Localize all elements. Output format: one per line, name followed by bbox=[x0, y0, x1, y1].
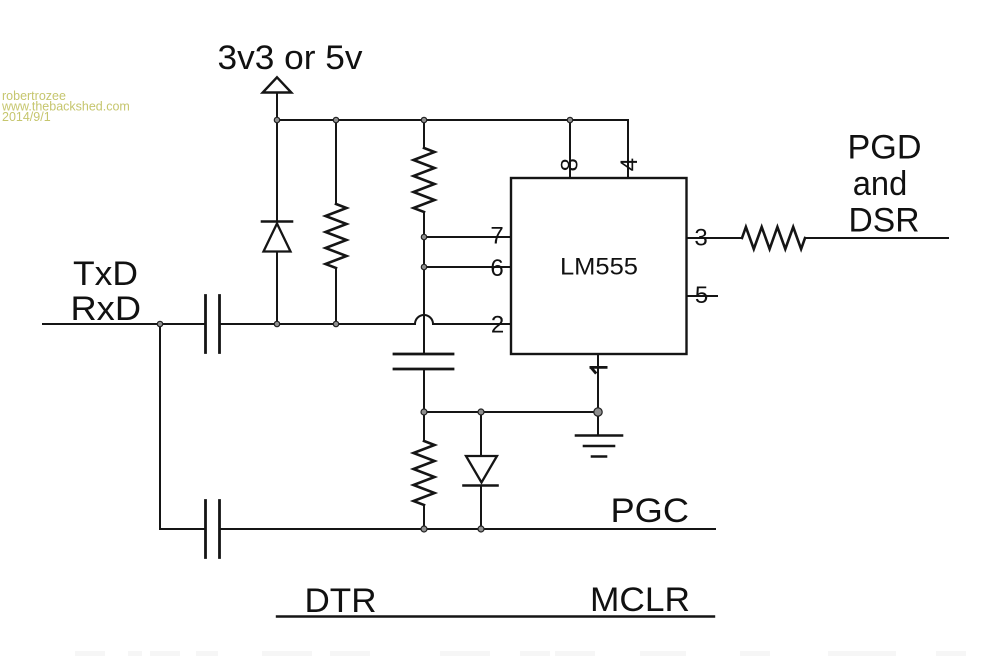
node PGC-D2 bbox=[478, 526, 484, 532]
wire pin 5 stub bbox=[687, 295, 718, 297]
svg-text:4: 4 bbox=[616, 158, 643, 171]
diode D1 cathode bar bbox=[262, 220, 292, 223]
wire D1 branch upper bbox=[276, 120, 278, 222]
svg-text:7: 7 bbox=[490, 223, 503, 250]
wire D1 branch lower bbox=[276, 252, 278, 325]
wire pin 7 bbox=[424, 236, 511, 238]
pin number 1 bbox=[590, 367, 608, 373]
node main-R2 bbox=[333, 321, 338, 326]
wire PGC left stub bbox=[160, 528, 204, 530]
wire pin 8 drop bbox=[569, 120, 571, 178]
svg-text:PGD: PGD bbox=[848, 129, 922, 167]
diode D2 cathode bar bbox=[464, 484, 498, 487]
node pin1-gnd bbox=[594, 408, 602, 416]
node mid-D2 bbox=[478, 409, 484, 415]
svg-text:DTR: DTR bbox=[305, 582, 377, 620]
svg-text:LM555: LM555 bbox=[560, 254, 638, 281]
wire C3 lower stem bbox=[423, 369, 425, 412]
resistor R4 bbox=[742, 227, 805, 249]
wire power stem bbox=[276, 93, 278, 121]
svg-text:RxD: RxD bbox=[71, 290, 142, 328]
svg-text:and: and bbox=[853, 165, 908, 203]
wire PGC net bbox=[221, 528, 716, 530]
capacitor C1 plates bbox=[206, 296, 220, 353]
wire pin 6 bbox=[424, 266, 511, 268]
svg-text:2014/9/1: 2014/9/1 bbox=[2, 110, 51, 124]
wire TxD/RxD main left bbox=[43, 323, 204, 325]
svg-text:MCLR: MCLR bbox=[590, 581, 690, 619]
wire threshold vertical bbox=[423, 212, 425, 353]
svg-text:6: 6 bbox=[490, 255, 503, 282]
ground bbox=[576, 436, 622, 457]
wire R2 branch lower bbox=[335, 268, 337, 324]
svg-text:PGC: PGC bbox=[611, 492, 690, 530]
node mid-R3 bbox=[421, 409, 427, 415]
node pin6 junction bbox=[421, 264, 426, 269]
diode D2 triangle bbox=[466, 456, 497, 483]
node pin7 junction bbox=[421, 234, 426, 239]
wire pin 2 with hop bbox=[221, 315, 512, 324]
wire D2 lower bbox=[480, 486, 482, 530]
wire PGD/DSR output bbox=[805, 237, 948, 239]
node main-D1 bbox=[274, 321, 279, 326]
wire R2 branch upper bbox=[335, 120, 337, 204]
capacitor C2 plates bbox=[206, 501, 220, 558]
wire DTR/MCLR rail bbox=[277, 615, 714, 617]
wire D2 upper bbox=[480, 412, 482, 456]
wire mid node horizontal bbox=[424, 411, 598, 413]
power symbol VCC triangle bbox=[263, 77, 292, 92]
wire pin 3 bbox=[687, 237, 743, 239]
wire R3 lower bbox=[423, 505, 425, 529]
node rail-D1 bbox=[274, 117, 279, 122]
resistor R2 bbox=[326, 204, 347, 268]
svg-text:DSR: DSR bbox=[849, 202, 920, 240]
faint bottom artifacts bbox=[75, 651, 966, 656]
node rail-R2 bbox=[333, 117, 338, 122]
wire pin 1 bbox=[597, 354, 599, 435]
svg-text:8: 8 bbox=[557, 158, 584, 171]
diode D1 triangle bbox=[264, 224, 291, 252]
capacitor C3 plates bbox=[394, 354, 453, 369]
svg-text:TxD: TxD bbox=[73, 255, 138, 293]
svg-text:3v3 or 5v: 3v3 or 5v bbox=[218, 39, 363, 77]
IC U1 LM555 body bbox=[511, 178, 687, 354]
node rail-R1 bbox=[421, 117, 426, 122]
svg-text:2: 2 bbox=[491, 312, 504, 339]
resistor R1 bbox=[414, 148, 435, 212]
resistor R3 bbox=[414, 441, 435, 505]
wire top supply rail bbox=[277, 120, 628, 178]
svg-text:5: 5 bbox=[695, 282, 708, 309]
wire R3 upper bbox=[423, 412, 425, 441]
node rail-pin8 bbox=[567, 117, 572, 122]
wire left drop to lower cap bbox=[159, 324, 161, 529]
node PGC-R3 bbox=[421, 526, 427, 532]
svg-text:3: 3 bbox=[694, 225, 707, 252]
node main-left bbox=[157, 321, 162, 326]
wire R1 branch upper bbox=[423, 120, 425, 148]
